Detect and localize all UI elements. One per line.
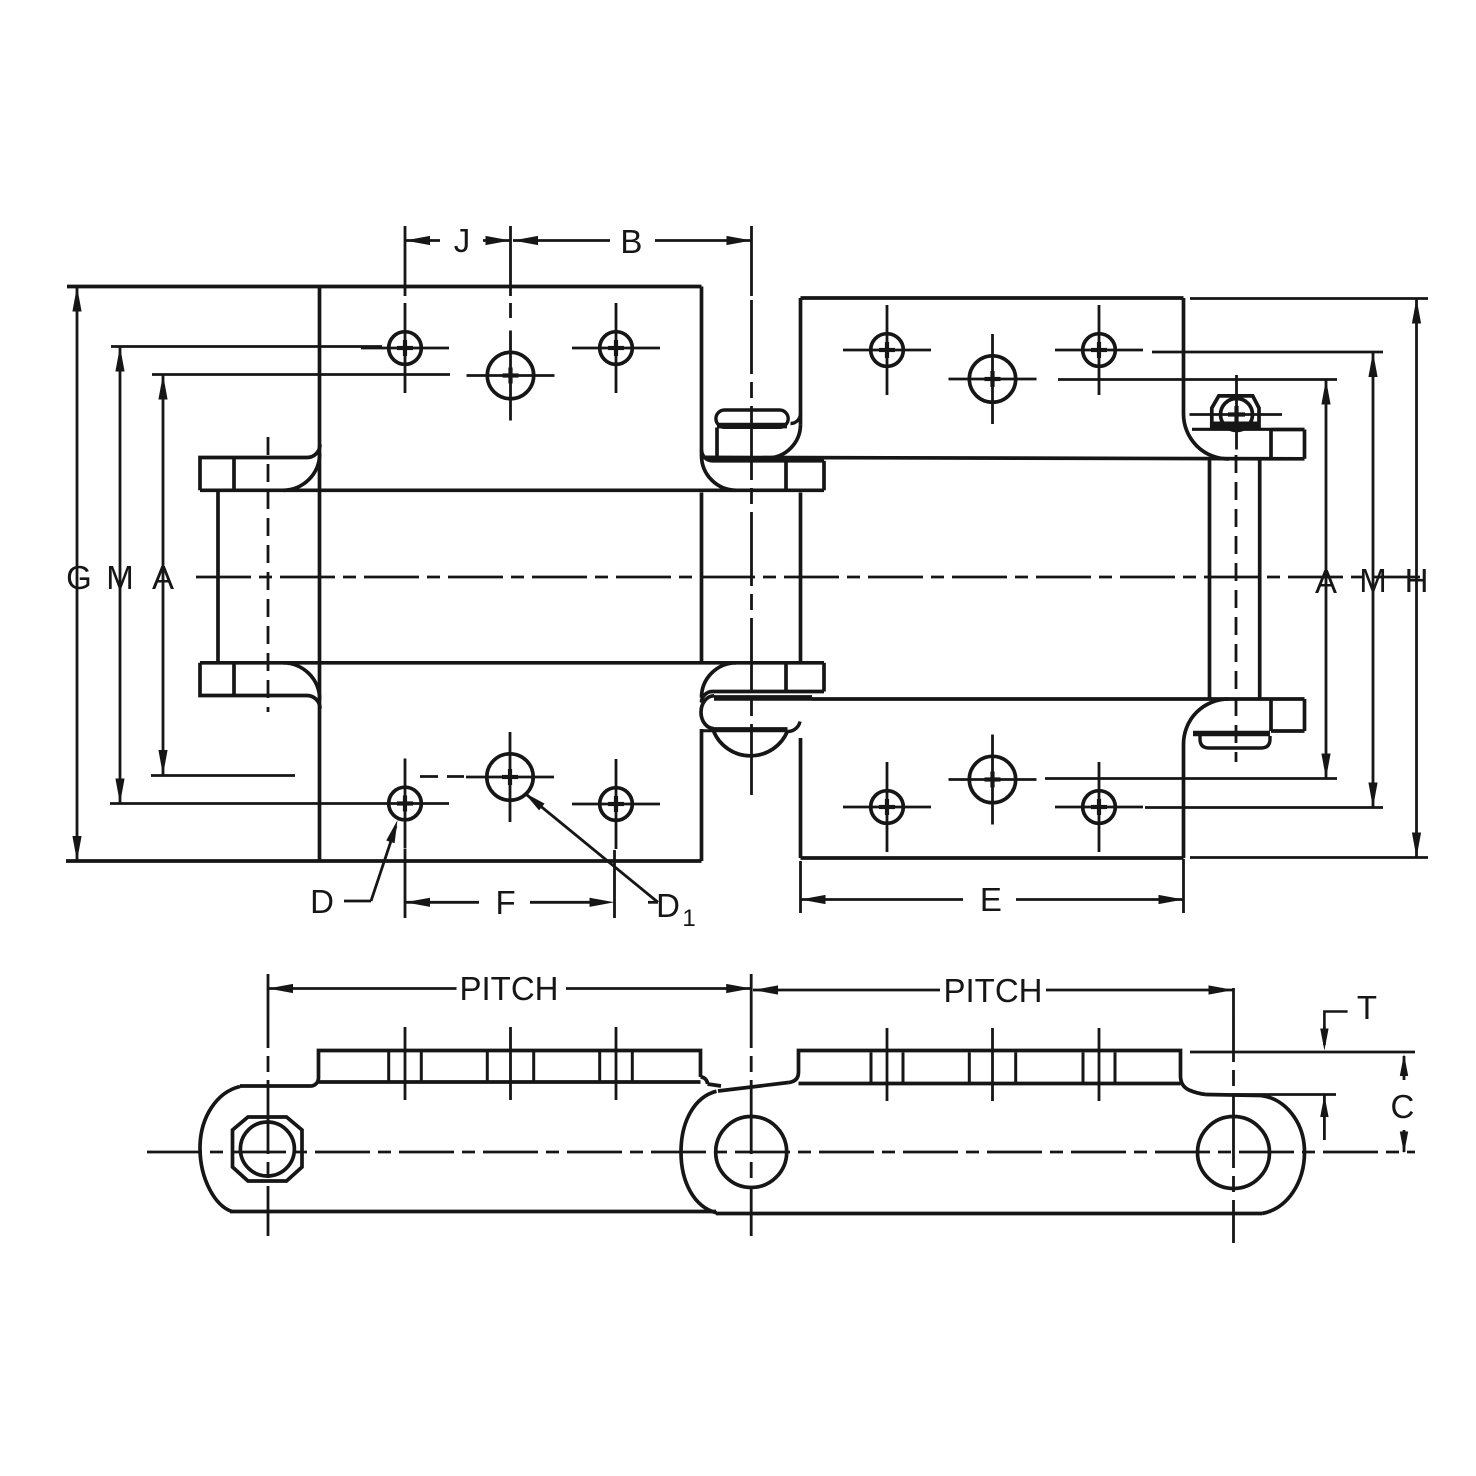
- right link plate strip (side view): [799, 1051, 1181, 1077]
- svg-text:1: 1: [682, 905, 695, 932]
- strip right fillet: [1181, 1076, 1207, 1095]
- side view chain centerline: [147, 1151, 1415, 1154]
- dimension C: [1403, 1056, 1406, 1080]
- T-bolt hex nut (top): [1212, 396, 1259, 430]
- right plate outer bend arc at right end (bottom): [1184, 699, 1229, 744]
- bottom lug inner bend radius: [307, 696, 320, 709]
- E left extension line: [799, 861, 802, 913]
- svg-text:J: J: [454, 222, 471, 259]
- left link pin lug edges at joint: [713, 459, 825, 463]
- M top extension line: [111, 345, 382, 348]
- svg-text:H: H: [1405, 562, 1429, 599]
- hole left link bottom row 3: [572, 759, 660, 849]
- A bottom extension line: [151, 774, 295, 777]
- inner bend radius top: [791, 414, 801, 424]
- dimension G: [76, 285, 79, 861]
- pin round head bulge: [714, 731, 788, 756]
- joint pin slotted head (top): [716, 410, 788, 427]
- dimension T: [1324, 1012, 1347, 1027]
- E right extension line: [1182, 859, 1185, 913]
- pin shank edge below head: [715, 428, 719, 459]
- F left extension line: [404, 849, 407, 918]
- top lug inner bend radius: [307, 445, 320, 458]
- bottom pin head thick top edge: [714, 695, 812, 701]
- J left extension line: [404, 226, 407, 296]
- left plate right edge segments: [700, 287, 704, 456]
- middle link end cap (side view): [681, 1091, 717, 1213]
- left link left end cap: [200, 1087, 240, 1212]
- plate hole edge lines (side view): [387, 1051, 390, 1083]
- arc into right plate edge: [788, 722, 801, 732]
- hole left link bottom row (large): [466, 732, 554, 822]
- svg-text:M: M: [1359, 562, 1387, 599]
- right plate left edge segments: [799, 298, 803, 424]
- right plate outer bend arc at right end (top): [1183, 414, 1228, 459]
- nut crown circle: [1221, 399, 1253, 431]
- svg-text:PITCH: PITCH: [944, 972, 1043, 1009]
- dimension PITCH (left): [268, 987, 457, 990]
- right link right end cap: [1261, 1096, 1305, 1214]
- svg-text:B: B: [620, 223, 642, 260]
- A bottom extension dashes: [420, 775, 464, 778]
- bolt hidden centerline: [1235, 455, 1238, 762]
- right pin centerline: [1232, 988, 1235, 1243]
- hole left link top row 3: [572, 303, 660, 393]
- bottom lug outer bend radius: [283, 663, 320, 700]
- sidebar top edge right end: [1206, 1095, 1261, 1096]
- bolt bottom head / washer: [1193, 731, 1270, 737]
- hole right link bottom row 3: [1055, 762, 1143, 852]
- right plate right edge segments: [1182, 298, 1186, 414]
- hole D1 left link top row (large): [467, 331, 555, 421]
- pin head thick lower edge: [717, 423, 787, 429]
- plate hole centerlines (side view): [404, 1027, 407, 1100]
- dimension M left: [119, 347, 122, 804]
- left link barrel sides: [216, 490, 220, 663]
- dimension B: [513, 239, 610, 242]
- svg-text:M: M: [106, 559, 134, 596]
- strip bottom edges: [319, 1080, 701, 1084]
- pin head chord line: [702, 729, 788, 732]
- left link sidebar edges: [200, 488, 824, 492]
- svg-text:D: D: [310, 883, 334, 920]
- dimension A right: [1325, 380, 1328, 779]
- dimension M right: [1372, 352, 1375, 808]
- M right bottom extension: [1145, 806, 1383, 809]
- left pin circle: [240, 1122, 294, 1176]
- left link bottom lug (bent wing): [200, 663, 307, 696]
- nut crosshair: [1190, 413, 1283, 416]
- M right top extension: [1152, 351, 1383, 354]
- A top extension line: [152, 373, 450, 376]
- left plate outer bend arc top: [702, 456, 737, 491]
- hole right link bottom row 1: [843, 762, 931, 852]
- left plate outer bend arc bottom: [702, 663, 737, 698]
- dimension A left: [162, 375, 165, 776]
- dimension PITCH (right): [753, 989, 940, 992]
- outer bend radius top: [767, 424, 801, 458]
- svg-text:C: C: [1390, 1088, 1414, 1125]
- svg-text:G: G: [66, 559, 92, 596]
- middle pin centerline: [750, 974, 753, 1236]
- right link attachment plate outline: [801, 296, 1184, 300]
- left link bottom edge: [230, 1210, 716, 1214]
- bottom pin head left cap: [701, 696, 714, 729]
- svg-text:A: A: [152, 559, 174, 596]
- strip top extension line: [1190, 1051, 1415, 1054]
- left barrel hidden centerline: [267, 437, 270, 712]
- hole D left link top row 1: [361, 303, 449, 393]
- right link sidebar edges: [704, 457, 1305, 458]
- svg-text:F: F: [496, 884, 516, 921]
- ledge blocks at joint: [784, 461, 788, 491]
- left pin centerline: [267, 974, 270, 1236]
- joint centerline extension (B): [750, 226, 753, 296]
- H bottom extension: [1190, 856, 1428, 859]
- hole right link top row (large): [949, 334, 1037, 424]
- svg-text:PITCH: PITCH: [460, 970, 559, 1007]
- sidebar top edge right of strip: [708, 1084, 722, 1086]
- right pin circle: [1198, 1117, 1270, 1189]
- A right top extension: [1058, 378, 1337, 381]
- hole right link top row 3: [1055, 305, 1143, 395]
- M bottom extension line: [110, 802, 361, 805]
- svg-text:E: E: [980, 881, 1002, 918]
- F right extension line: [613, 850, 616, 918]
- cap top contour: [718, 1083, 789, 1092]
- svg-text:D: D: [656, 887, 680, 924]
- plate edge fillet top: [702, 450, 713, 461]
- right end ledge blocks: [1269, 430, 1273, 459]
- svg-text:T: T: [1357, 989, 1377, 1026]
- joint vertical centerline: [750, 300, 753, 795]
- strip to sidebar fillets: [311, 1078, 319, 1086]
- svg-text:A: A: [1315, 563, 1337, 600]
- right link bottom edge: [716, 1212, 1262, 1216]
- plate edge fillet bottom: [702, 692, 713, 703]
- sidebar top extension line: [1232, 1093, 1336, 1096]
- hole centerline extensions below J: [509, 303, 512, 318]
- top lug outer bend radius: [283, 454, 320, 491]
- hole right link bottom row (large): [949, 735, 1037, 825]
- bolt shank edges: [1208, 459, 1212, 699]
- A right bottom extension: [1045, 777, 1337, 780]
- hole right link top row 1: [843, 305, 931, 395]
- sidebar top edge left of strip: [240, 1084, 311, 1088]
- middle pin circle: [716, 1117, 787, 1188]
- hole left link bottom row 1: [361, 759, 449, 849]
- H top extension: [1190, 297, 1428, 300]
- left pin hex head: [233, 1117, 303, 1181]
- top view horizontal centerline: [196, 576, 1420, 579]
- flange line under nut: [1192, 428, 1271, 431]
- dimension H: [1415, 299, 1418, 858]
- J right extension line: [509, 226, 512, 296]
- left link attachment plate outline: [67, 285, 702, 289]
- left link plate strip (side view): [319, 1051, 701, 1079]
- strip left fillet: [789, 1072, 799, 1083]
- left link top lug (bent wing): [200, 458, 307, 491]
